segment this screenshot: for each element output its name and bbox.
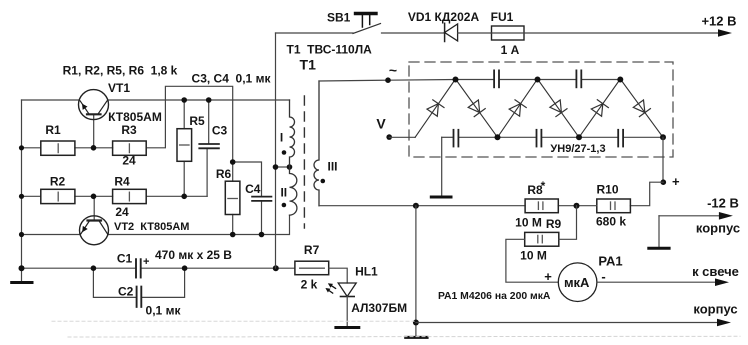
wire: multiplier zigzag diagonals [415,79,663,137]
junction: chassis drop on III-bottom wire [413,203,419,209]
svg-text:C3: C3 [212,124,228,138]
capacitor C top2 [575,70,577,87]
svg-text:I: I [280,131,283,145]
ground under HL1 [336,326,359,329]
wire: C2 bypass loop [93,268,136,297]
wire: winding III top to multiplier input [319,80,456,82]
node: middle tap junctions [273,164,279,170]
LED HL1 [338,283,356,297]
wire: bottom rail C1 row [22,267,136,269]
svg-text:R7: R7 [304,243,320,257]
wire: R2 row [22,195,41,197]
fuse FU1 [492,26,525,40]
svg-text:*: * [541,179,546,193]
ground of -12V input [658,216,660,247]
resistor R1 [41,141,75,155]
svg-text:VT2 КТ805АМ: VT2 КТ805АМ [114,221,189,233]
wire: R9 right up to node [559,206,577,240]
wire: C1 right to R7 [141,267,295,269]
svg-text:II: II [280,186,287,200]
faint fold line 1 [52,320,414,322]
svg-text:корпус: корпус [693,302,737,317]
resistor R2 [41,189,75,203]
wire: winding III bottom to R8 row [319,205,525,207]
svg-text:V: V [376,116,386,132]
svg-text:PA1: PA1 [598,254,622,269]
ground at left rail bottom [21,268,23,281]
svg-text:470 мк x 25 В: 470 мк x 25 В [155,248,232,262]
wire: R1 row [22,147,41,149]
svg-text:24: 24 [115,205,129,219]
transformer T1 winding II [290,167,297,215]
svg-text:680 k: 680 k [596,215,626,229]
transformer T1 winding I [290,100,295,167]
svg-text:VT1: VT1 [108,81,130,95]
capacitor C bottom3 [617,130,619,147]
resistor R8 [525,199,558,213]
wire: R5 top lead [183,100,185,129]
transformer T1 winding III [314,81,319,206]
LED HL1 emission arrows [330,284,336,288]
wire: VT2 base lead [93,196,95,220]
capacitor C bottom1 [453,130,455,147]
wire: VD1 to FU1 [458,32,492,34]
wire: C2 right side of loop [141,268,184,297]
faint fold line 2 [68,335,740,338]
node: ~ input terminal [385,77,391,83]
svg-text:C2: C2 [118,285,134,299]
transistor VT1 [79,90,109,120]
wire: C3 bottom lead [206,149,208,196]
svg-text:0,1 мк: 0,1 мк [146,304,182,318]
wire: C3 top lead [208,100,210,144]
ground chassis bottom [406,336,427,339]
capacitor C bottom2 [536,130,538,147]
svg-text:R3: R3 [121,123,137,137]
capacitor C top1 [493,70,495,87]
svg-text:АЛ307БМ: АЛ307БМ [351,301,407,315]
wire: left rail vertical [21,100,23,268]
svg-text:корпус: корпус [696,221,740,236]
capacitor C3 [199,143,219,145]
diode D5 of multiplier U1 [591,104,603,117]
transformer T1 core [303,96,305,228]
resistor R7 [295,261,329,275]
capacitor C4 [252,196,271,198]
capacitor C2 [136,287,138,307]
wire: + node to R10 [630,182,663,206]
svg-text:C4: C4 [245,182,261,196]
wire: R5 bottom lead [183,161,185,196]
svg-text:SB1: SB1 [327,11,351,25]
svg-text:R6: R6 [216,167,232,181]
resistor R4 [113,189,147,203]
wire: VT1 collector rail to transformer winding I [108,99,290,101]
wire: R3 right up-over to R6 top [146,86,233,181]
wire: korpus output line [416,322,718,324]
svg-text:R1: R1 [45,123,61,137]
resistor R10 [597,199,631,213]
svg-text:КТ805АМ: КТ805АМ [108,110,162,124]
svg-text:Т1 ТВС-110ЛА: Т1 ТВС-110ЛА [287,43,373,57]
svg-text:-12 В: -12 В [707,196,739,211]
svg-text:+: + [143,256,149,268]
node: + output [661,179,667,185]
meter PA1 [558,263,597,302]
resistor R3 [113,141,147,155]
junction dots left section [19,97,279,271]
wire: C4 bottom lead [261,201,263,235]
svg-text:R9: R9 [546,217,562,231]
node V input terminal [386,134,392,140]
wire: V terminal into ladder [389,136,415,138]
wire: R8 to R10 [558,205,597,207]
svg-text:R4: R4 [114,175,130,189]
wire: multiplier output down to + node [662,137,664,182]
diode D1 of multiplier U1 [427,104,438,117]
wire: R1 to R3 [75,147,113,149]
winding I polarity dot [282,150,287,155]
svg-text:+: + [672,174,680,189]
svg-text:к свече: к свече [692,264,739,279]
wire: branch to C4 top [233,162,262,196]
junction: korpus line start [413,320,419,326]
switch SB1 [276,32,354,34]
wire: R4 right to R5 bottom and C3 bottom [146,195,207,197]
svg-text:VD1 КД202А: VD1 КД202А [408,10,480,24]
svg-text:R10: R10 [596,183,618,197]
svg-text:2 k: 2 k [301,278,318,292]
wire: VT1 emitter row to left rail [22,99,80,101]
svg-text:Т1: Т1 [300,57,317,73]
multiplier U1 УН9/27-1,3 dashed box [409,62,673,157]
svg-text:FU1: FU1 [491,10,514,24]
diode D6 of multiplier U1 [633,100,645,113]
svg-text:R1, R2, R5, R6 1,8 k: R1, R2, R5, R6 1,8 k [63,64,178,78]
wire: R9 left down to PA1 plus [506,239,558,282]
svg-text:~: ~ [389,62,397,78]
wire: SB1 feed vertical from switch to bottom rail [275,33,277,268]
junction dots multiplier [453,77,667,141]
resistor R5 [177,129,192,162]
wire: multiplier top row [456,79,493,81]
svg-text:+: + [544,269,552,284]
svg-text:III: III [328,160,338,174]
wire: R2 to R4 [75,195,113,197]
diode VD1 [444,23,446,41]
wire: chassis vertical [415,206,417,337]
wire: VT2 emitter row to left rail [22,234,81,236]
svg-text:R5: R5 [189,114,205,128]
wire: VT2 collector row to winding II [108,215,290,234]
winding III polarity dot [321,179,326,184]
svg-text:УН9/27-1,3: УН9/27-1,3 [550,143,605,155]
diode D4 of multiplier U1 [550,100,562,113]
junction: R8/R9/R10 node [574,203,580,209]
svg-text:R2: R2 [50,175,66,189]
transistor VT2 [80,216,109,245]
resistor R6 [225,181,240,214]
wire: R6 bottom lead [232,215,234,235]
diode D2 of multiplier U1 [468,100,480,113]
svg-text:+12 В: +12 В [701,14,736,29]
svg-text:мкА: мкА [564,275,590,290]
svg-text:C1: C1 [117,252,133,266]
wire: transformer middle tap [276,166,290,168]
wire: FU1 to +12V output arrow [524,32,719,34]
svg-text:24: 24 [122,154,136,168]
resistor R9 [525,232,559,246]
svg-text:РА1 М4206 на 200 мкА: РА1 М4206 на 200 мкА [438,291,551,302]
wire: multiplier bottom row [442,136,453,138]
wire: VT1 base lead [93,114,95,148]
wire: R7 to HL1 [329,268,348,283]
diode D3 of multiplier U1 [509,104,520,117]
svg-text:1 А: 1 А [501,43,520,57]
capacitor C1 [135,259,137,277]
svg-text:10 М: 10 М [520,249,547,263]
wire: -12V output line [659,215,720,217]
winding II polarity dot [282,203,287,208]
svg-text:10 М: 10 М [515,216,542,230]
wire: PA1 to k sveche arrow [597,281,716,283]
svg-text:-: - [601,269,605,284]
svg-text:C3, C4 0,1 мк: C3, C4 0,1 мк [192,72,272,86]
wire: bottom row left to ground [441,137,443,195]
svg-text:HL1: HL1 [355,265,378,279]
ground of multiplier [431,196,451,199]
wire: SB1 to VD1 [382,32,445,34]
